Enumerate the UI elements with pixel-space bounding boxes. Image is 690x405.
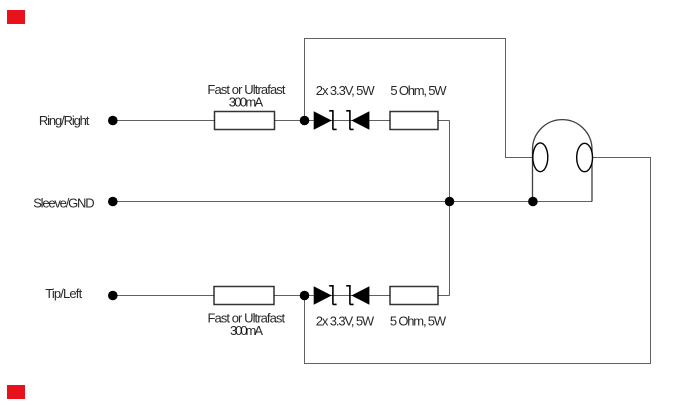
svg-text:5 Ohm, 5W: 5 Ohm, 5W <box>390 83 447 98</box>
svg-text:5 Ohm, 5W: 5 Ohm, 5W <box>390 314 447 329</box>
svg-text:300mA: 300mA <box>230 323 263 338</box>
svg-text:Sleeve/GND: Sleeve/GND <box>33 195 94 210</box>
svg-text:300mA: 300mA <box>229 94 264 109</box>
svg-text:2x 3.3V, 5W: 2x 3.3V, 5W <box>316 314 375 329</box>
svg-text:2x 3.3V, 5W: 2x 3.3V, 5W <box>316 83 376 98</box>
svg-text:Ring/Right: Ring/Right <box>39 113 90 128</box>
svg-text:Tip/Left: Tip/Left <box>45 286 82 301</box>
